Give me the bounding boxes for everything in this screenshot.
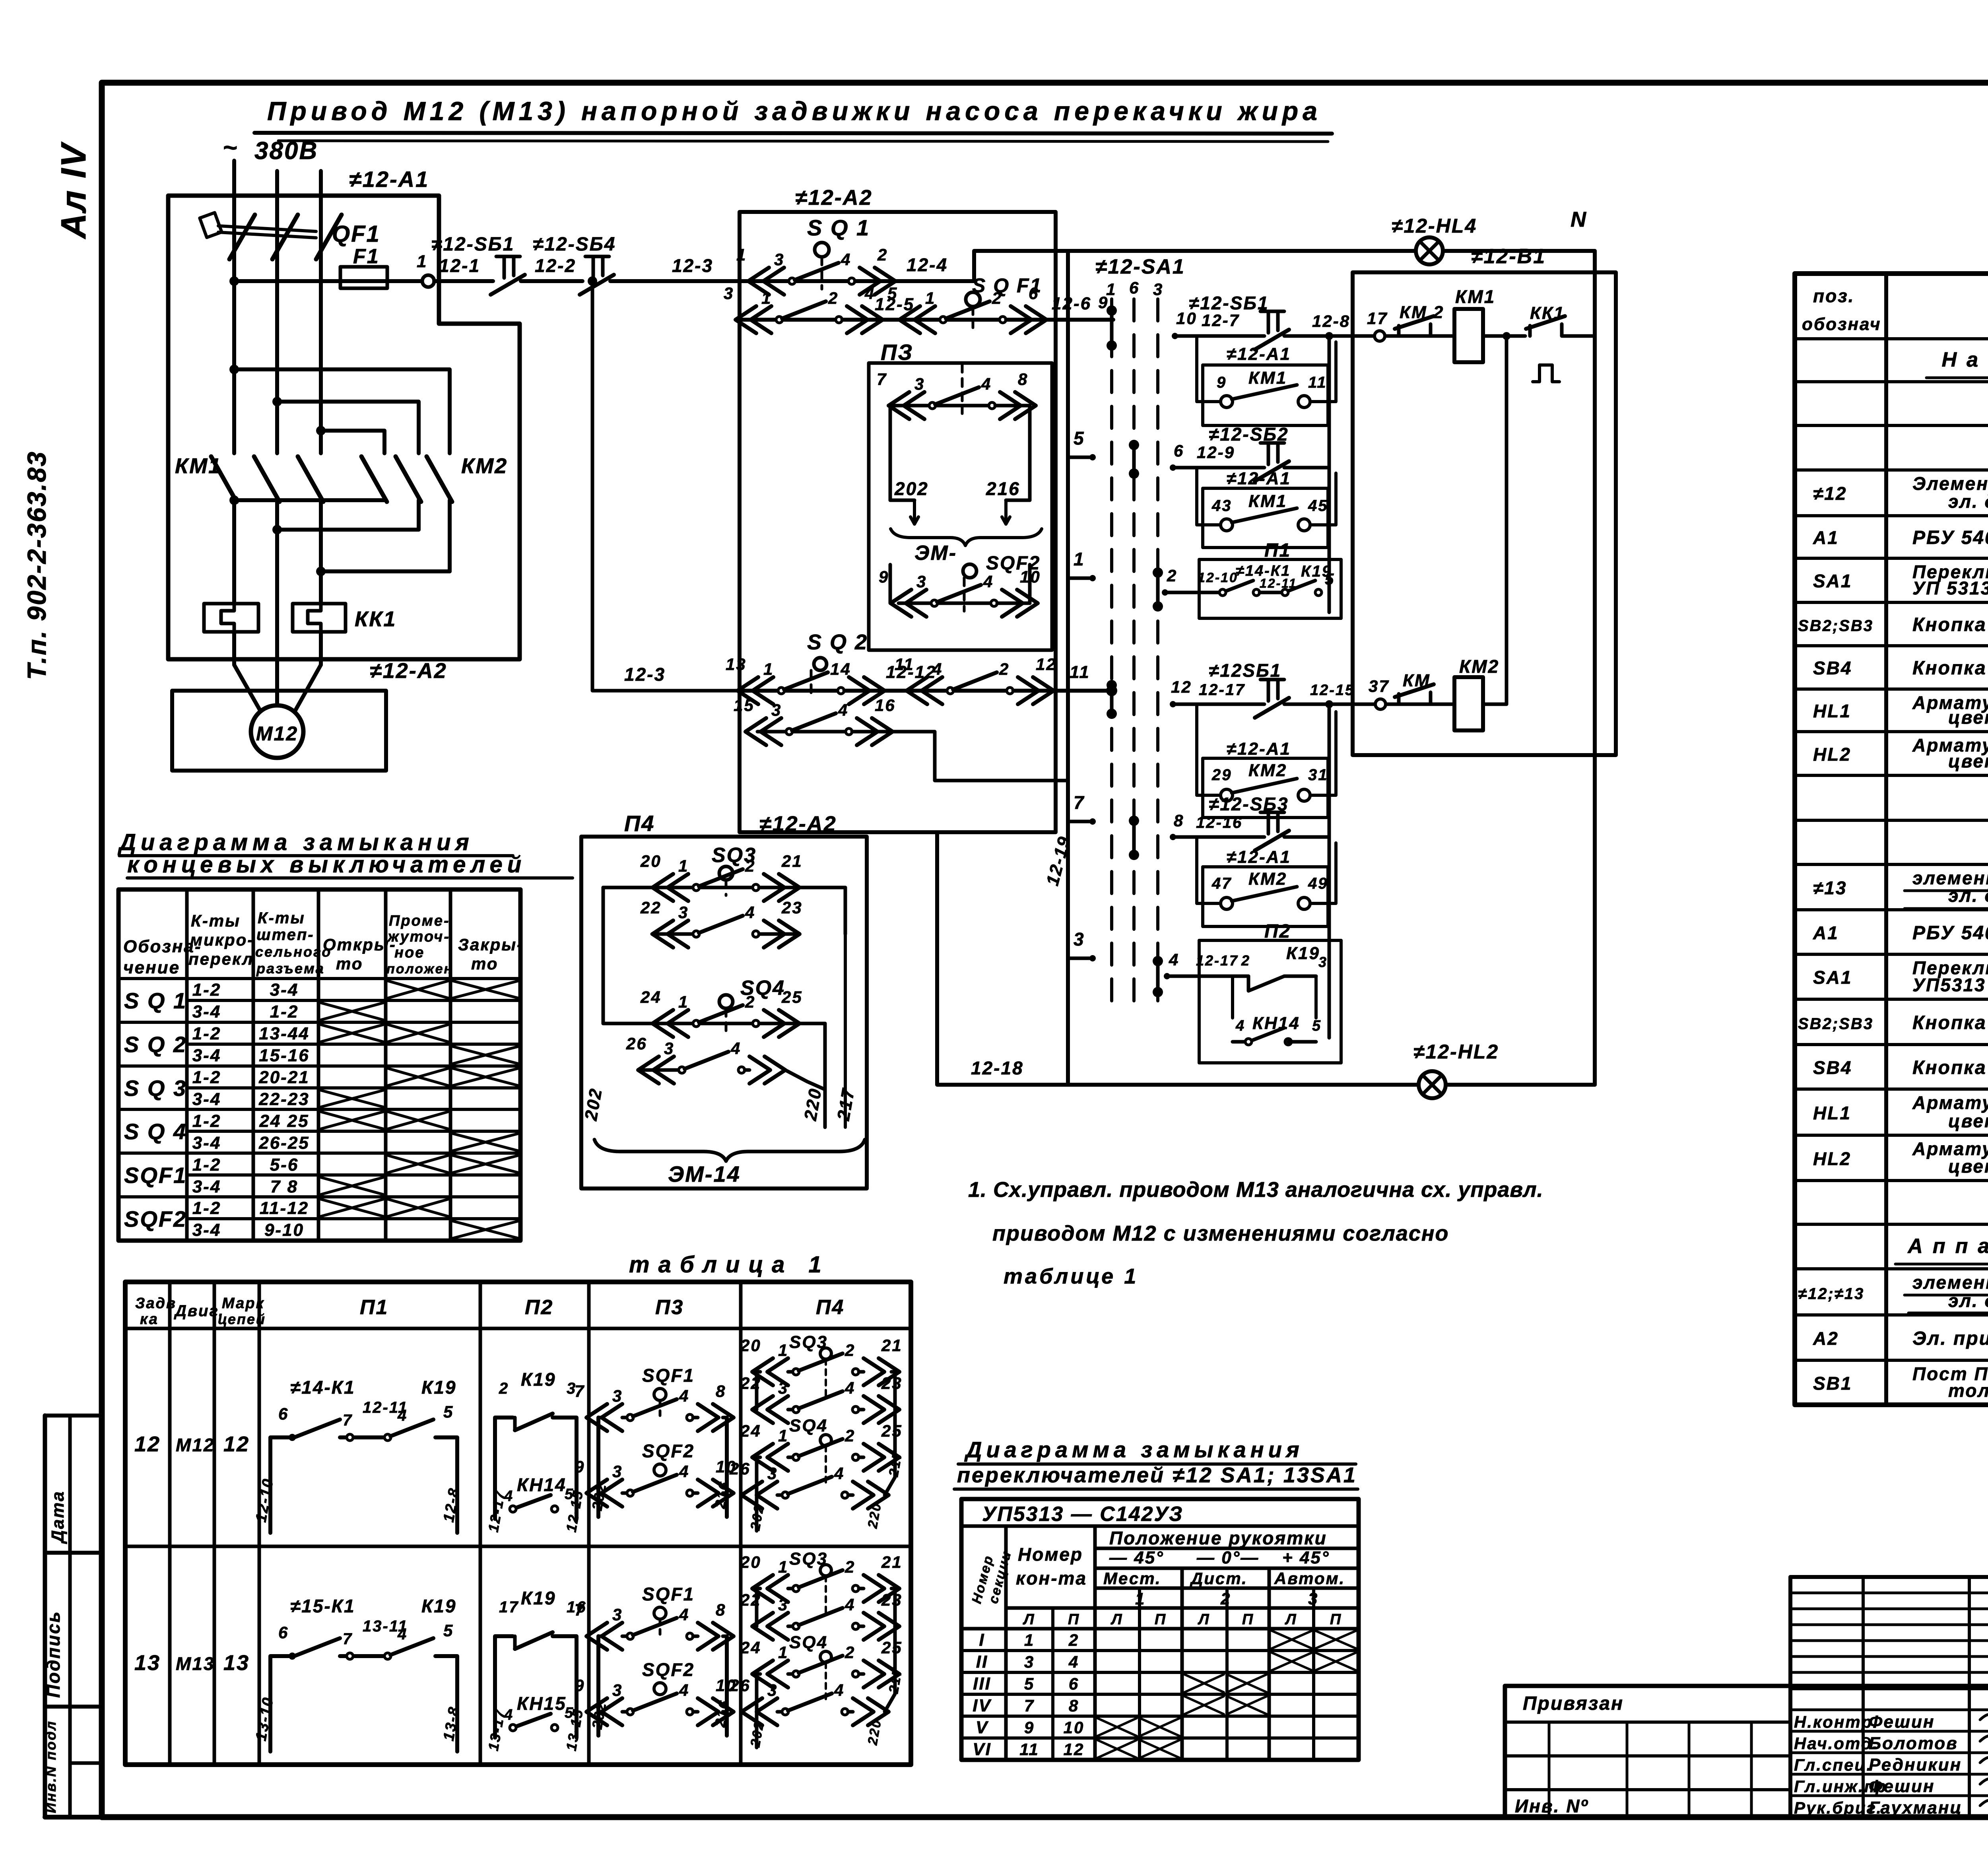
- svg-text:— 45°: — 45°: [1109, 1548, 1164, 1567]
- svg-text:ЭМ-: ЭМ-: [914, 542, 957, 565]
- table1 cell P2 row13: [485, 1588, 587, 1752]
- svg-text:3: 3: [678, 903, 689, 922]
- svg-text:12: 12: [1064, 1740, 1085, 1759]
- svg-text:РБУ 5401- 03А 2Ж: РБУ 5401- 03А 2Ж: [1912, 922, 1988, 944]
- brace EM-14: [594, 1140, 865, 1187]
- svg-text:17: 17: [1367, 309, 1388, 328]
- svg-text:24: 24: [740, 1638, 761, 1657]
- svg-text:2: 2: [1167, 566, 1177, 585]
- svg-text:эл. дв. М13: эл. дв. М13: [1948, 885, 1988, 906]
- signature rows: [1790, 1686, 1988, 1818]
- aux contact box KM2 no.2: [1197, 837, 1336, 926]
- table1 header: [135, 1295, 845, 1328]
- svg-text:3-4: 3-4: [270, 980, 299, 1000]
- svg-text:3-4: 3-4: [192, 1002, 221, 1021]
- left stamp cells: [43, 1416, 111, 1817]
- svg-text:+ 45°: + 45°: [1282, 1548, 1330, 1567]
- svg-text:23: 23: [781, 898, 803, 917]
- svg-text:10: 10: [1020, 567, 1041, 586]
- supply phase wires: [234, 161, 321, 453]
- svg-text:6: 6: [278, 1404, 289, 1423]
- svg-text:концевых выключателей: концевых выключателей: [127, 852, 526, 878]
- svg-text:9: 9: [879, 567, 889, 586]
- svg-text:4: 4: [397, 1407, 408, 1424]
- svg-text:10: 10: [1064, 1718, 1085, 1737]
- svg-text:Кнопка КЕ 011УЗ: Кнопка КЕ 011УЗ: [1912, 614, 1988, 635]
- svg-text:3: 3: [612, 1462, 623, 1481]
- svg-text:12-17: 12-17: [1196, 952, 1239, 969]
- svg-text:П2: П2: [525, 1296, 553, 1319]
- svg-text:НL1: НL1: [1813, 1103, 1851, 1123]
- SA1 table grid: [961, 1499, 1359, 1760]
- svg-text:1-2: 1-2: [192, 1068, 221, 1087]
- svg-text:23: 23: [881, 1374, 903, 1392]
- svg-text:2: 2: [845, 1643, 855, 1662]
- bus stub 5: [1068, 428, 1096, 460]
- svg-text:12-17: 12-17: [1199, 681, 1245, 699]
- svg-text:25: 25: [881, 1638, 903, 1657]
- svg-text:1-2: 1-2: [192, 1024, 221, 1043]
- svg-text:Кнопка КЕ 011УЗ исполн. 2: Кнопка КЕ 011УЗ исполн. 2: [1912, 1012, 1988, 1033]
- svg-text:12: 12: [1171, 678, 1192, 696]
- table1 row labels 13: [134, 1651, 250, 1675]
- svg-text:Положение рукоятки: Положение рукоятки: [1109, 1528, 1327, 1548]
- svg-text:26-25: 26-25: [258, 1133, 310, 1153]
- svg-text:цепей: цепей: [218, 1311, 266, 1327]
- svg-text:4: 4: [1068, 1653, 1079, 1671]
- svg-text:1: 1: [417, 252, 427, 271]
- svg-text:37: 37: [1369, 677, 1390, 695]
- svg-text:КМ2: КМ2: [1248, 761, 1287, 780]
- SA1 diagram title: [954, 1437, 1358, 1489]
- svg-text:21: 21: [781, 852, 803, 870]
- svg-text:7 8: 7 8: [270, 1177, 298, 1196]
- svg-text:1: 1: [1024, 1631, 1035, 1649]
- bus wire 12-19: [1043, 251, 1074, 1085]
- svg-text:поз.: поз.: [1813, 285, 1854, 306]
- svg-text:Дата: Дата: [48, 1490, 68, 1544]
- svg-text:8: 8: [716, 1600, 726, 1619]
- svg-text:А2: А2: [1813, 1328, 1839, 1349]
- motor feeder wires: [234, 632, 321, 711]
- parts table header: [1802, 285, 1988, 334]
- svg-text:Фешин: Фешин: [1869, 1777, 1935, 1796]
- svg-text:цвет красн.: цвет красн.: [1948, 1111, 1988, 1131]
- svg-text:3: 3: [914, 375, 925, 393]
- svg-text:380В: 380В: [254, 137, 318, 165]
- svg-text:12-3: 12-3: [624, 664, 666, 685]
- revision table: [1790, 1577, 1988, 1688]
- svg-text:12-2: 12-2: [535, 255, 576, 276]
- svg-text:11-12: 11-12: [260, 1198, 309, 1218]
- svg-text:1: 1: [1106, 280, 1116, 299]
- svg-text:3: 3: [778, 1379, 788, 1397]
- svg-text:П: П: [1068, 1611, 1080, 1628]
- svg-text:5-6: 5-6: [270, 1155, 299, 1175]
- svg-text:SА1: SА1: [1813, 967, 1852, 988]
- svg-text:К-ты: К-ты: [191, 911, 241, 930]
- svg-text:4: 4: [983, 572, 994, 591]
- svg-text:31: 31: [1308, 766, 1328, 784]
- svg-text:Редникин: Редникин: [1869, 1755, 1962, 1775]
- svg-text:Аппаратура по месту: Аппаратура по месту: [1907, 1235, 1988, 1258]
- svg-text:НL2: НL2: [1813, 1148, 1851, 1169]
- svg-text:5: 5: [1024, 1674, 1035, 1693]
- bus stub 1: [1068, 549, 1096, 581]
- svg-text:≠12-В1: ≠12-В1: [1471, 245, 1546, 268]
- supply 380V label: [223, 134, 318, 165]
- svg-text:Откры-: Откры-: [323, 935, 396, 954]
- svg-text:22: 22: [740, 1374, 761, 1392]
- SA1 contact pair 2: [1132, 445, 1136, 474]
- svg-text:4: 4: [1169, 950, 1179, 969]
- svg-text:4: 4: [834, 1681, 845, 1699]
- svg-text:Закры-: Закры-: [458, 935, 524, 954]
- svg-text:КМ2: КМ2: [1248, 869, 1287, 889]
- svg-text:8: 8: [1174, 811, 1184, 830]
- svg-text:20: 20: [740, 1553, 761, 1571]
- limit switch SQ2 rung: [588, 276, 1112, 704]
- svg-text:Задв: Задв: [135, 1295, 177, 1312]
- svg-text:3: 3: [1074, 929, 1085, 950]
- svg-text:49: 49: [1308, 875, 1328, 892]
- parts row: SB1 post: [1813, 1363, 1988, 1401]
- panel A1 box: [168, 196, 520, 659]
- svg-text:11: 11: [895, 655, 914, 674]
- svg-text:12-4: 12-4: [907, 254, 948, 275]
- parts table grid: [1795, 274, 1988, 1405]
- svg-text:7: 7: [1074, 792, 1085, 813]
- fuse F1: [229, 245, 422, 288]
- svg-text:6: 6: [1129, 278, 1140, 297]
- svg-text:24: 24: [640, 988, 662, 1006]
- svg-text:толк.средн 1з 1р толк нижн 1з: толк.средн 1з 1р толк нижн 1з 1р: [1948, 1380, 1988, 1401]
- interlock box П2: [1164, 921, 1341, 1063]
- svg-text:Привязан: Привязан: [1523, 1693, 1624, 1714]
- table1 cell P3 row12: [575, 1365, 737, 1517]
- svg-text:12-3: 12-3: [672, 255, 713, 276]
- svg-text:ЭМ-14: ЭМ-14: [668, 1161, 741, 1187]
- SQF2 contact in П3: [879, 553, 1041, 617]
- SA1 table header: [969, 1544, 1345, 1628]
- SA1 row II: [976, 1652, 1356, 1672]
- svg-text:7: 7: [877, 370, 887, 388]
- svg-text:≠12-SБ1: ≠12-SБ1: [1189, 293, 1269, 313]
- wire 12-3: [610, 255, 740, 281]
- svg-text:К19: К19: [421, 1596, 456, 1616]
- svg-text:3: 3: [916, 572, 927, 591]
- wire 12-2: [521, 255, 582, 281]
- svg-text:4: 4: [679, 1387, 689, 1405]
- svg-text:элементы управления: элементы управления: [1912, 1272, 1988, 1293]
- svg-text:то: то: [471, 954, 498, 973]
- svg-text:Т.п. 902-2-363.83: Т.п. 902-2-363.83: [22, 451, 51, 680]
- svg-text:2: 2: [1220, 1589, 1231, 1608]
- table1 grid: [125, 1282, 911, 1765]
- svg-text:Насосная станция: Насосная станция: [1942, 348, 1988, 371]
- svg-text:2: 2: [745, 856, 755, 875]
- svg-text:SQF1: SQF1: [642, 1365, 695, 1386]
- svg-text:S Q 3: S Q 3: [124, 1076, 187, 1101]
- svg-text:II: II: [976, 1652, 988, 1672]
- svg-text:9: 9: [1024, 1718, 1035, 1737]
- svg-text:N: N: [1571, 208, 1587, 231]
- parts row: SA1 switch: [1813, 561, 1988, 598]
- svg-text:12: 12: [134, 1432, 161, 1456]
- svg-text:3: 3: [767, 1464, 778, 1483]
- svg-text:НL1: НL1: [1813, 701, 1851, 721]
- svg-text:6: 6: [1069, 1674, 1079, 1693]
- svg-text:Дист.: Дист.: [1190, 1569, 1248, 1588]
- svg-text:5: 5: [1312, 1018, 1322, 1034]
- svg-text:≠12-SБ1: ≠12-SБ1: [431, 234, 514, 255]
- limit switch table header: [123, 909, 524, 977]
- svg-text:2: 2: [999, 660, 1010, 678]
- svg-text:2: 2: [745, 992, 755, 1011]
- limit switch SQ4 contacts: [581, 934, 858, 1127]
- bus stub 7: [1068, 792, 1096, 825]
- svg-text:5: 5: [887, 284, 898, 303]
- svg-text:QF1: QF1: [332, 221, 381, 247]
- table group SQ4: [124, 1111, 518, 1153]
- parts row: A1 RBU 2: [1813, 922, 1988, 944]
- svg-text:КМ2: КМ2: [1459, 656, 1499, 677]
- parts row: SB4 2: [1813, 1057, 1988, 1078]
- svg-text:разъема: разъема: [256, 960, 325, 977]
- parts row: HL1 2: [1813, 1092, 1988, 1131]
- svg-text:Мест.: Мест.: [1103, 1569, 1161, 1588]
- parts row: Nasosnaya stanciya: [1926, 348, 1988, 378]
- contactor KM2 main contacts: [361, 454, 508, 571]
- svg-text:Н.контр.: Н.контр.: [1794, 1713, 1879, 1731]
- svg-text:7: 7: [343, 1630, 353, 1648]
- svg-text:К19: К19: [521, 1369, 556, 1390]
- svg-text:1: 1: [763, 660, 774, 678]
- svg-text:КМ1: КМ1: [1248, 491, 1287, 511]
- svg-text:6: 6: [278, 1623, 289, 1642]
- svg-text:6: 6: [1029, 284, 1039, 303]
- svg-text:1-2: 1-2: [192, 1198, 221, 1218]
- svg-text:1: 1: [1074, 549, 1085, 569]
- svg-text:приводом М12 с изменениями: приводом М12 с изменениями согласно: [992, 1221, 1449, 1245]
- svg-text:24: 24: [740, 1422, 761, 1440]
- svg-text:1-2: 1-2: [270, 1002, 299, 1021]
- thermal relay KK1: [204, 604, 396, 632]
- svg-text:Проме-: Проме-: [389, 913, 450, 929]
- svg-text:15-16: 15-16: [259, 1046, 310, 1065]
- svg-text:21: 21: [881, 1553, 903, 1571]
- svg-text:3: 3: [612, 1681, 623, 1699]
- svg-text:4: 4: [841, 250, 851, 269]
- svg-text:11: 11: [1019, 1740, 1039, 1759]
- svg-text:НL2: НL2: [1813, 744, 1851, 765]
- table group SQF1: [124, 1155, 518, 1196]
- svg-text:4: 4: [845, 1595, 855, 1614]
- svg-text:12-18: 12-18: [971, 1058, 1024, 1078]
- svg-text:13: 13: [223, 1651, 250, 1675]
- svg-text:12-8: 12-8: [1312, 312, 1350, 330]
- svg-text:26: 26: [729, 1676, 751, 1695]
- parts row: SB4: [1813, 658, 1988, 679]
- svg-text:25: 25: [781, 988, 803, 1006]
- svg-text:Л: Л: [1197, 1611, 1210, 1628]
- valve drive box #12-A2 control: [740, 186, 1056, 832]
- SA1 contact pair 3: [1156, 573, 1160, 606]
- SA1 contact pair 1: [1110, 311, 1114, 346]
- table group SQF2: [124, 1198, 518, 1240]
- svg-text:I: I: [979, 1630, 985, 1650]
- svg-text:7: 7: [575, 1382, 585, 1400]
- svg-text:9: 9: [575, 1457, 585, 1476]
- svg-text:17: 17: [499, 1598, 519, 1616]
- svg-text:Болотов: Болотов: [1869, 1734, 1958, 1753]
- svg-text:Л: Л: [1022, 1611, 1035, 1628]
- svg-text:S Q 2: S Q 2: [124, 1032, 187, 1057]
- svg-text:3: 3: [778, 1595, 788, 1614]
- table1 cell P1 row12: [253, 1377, 463, 1533]
- svg-text:4: 4: [981, 375, 992, 393]
- svg-text:К19: К19: [1286, 944, 1320, 963]
- svg-text:1: 1: [678, 856, 689, 875]
- svg-text:Автом.: Автом.: [1274, 1569, 1345, 1588]
- svg-text:2: 2: [845, 1426, 855, 1445]
- limit switch SQ3 contacts: [603, 844, 845, 1023]
- svg-text:7: 7: [343, 1412, 353, 1429]
- aux contact box KM2 no.1: [1197, 704, 1336, 818]
- svg-text:SВ2;SВ3: SВ2;SВ3: [1798, 617, 1873, 635]
- svg-text:Арматура ЛС-53 V 220В: Арматура ЛС-53 V 220В: [1912, 1092, 1988, 1113]
- svg-text:12: 12: [1036, 655, 1057, 674]
- svg-text:2: 2: [992, 289, 1002, 307]
- svg-text:43: 43: [1211, 497, 1232, 515]
- svg-text:5: 5: [443, 1621, 454, 1640]
- svg-text:обознач: обознач: [1802, 315, 1881, 334]
- svg-text:21: 21: [881, 1336, 903, 1355]
- svg-text:1: 1: [778, 1557, 788, 1576]
- svg-text:IV: IV: [973, 1696, 992, 1715]
- table group SQ3: [124, 1068, 518, 1109]
- svg-text:12: 12: [223, 1432, 250, 1456]
- svg-text:26: 26: [729, 1459, 751, 1478]
- svg-text:2: 2: [845, 1341, 855, 1359]
- svg-text:14: 14: [830, 660, 851, 678]
- svg-text:4: 4: [845, 1379, 855, 1397]
- parts row: A2 drive: [1813, 1328, 1988, 1349]
- svg-text:9: 9: [575, 1676, 585, 1695]
- SQ2 second contact rung: [734, 696, 1068, 781]
- bus stub 3: [1068, 929, 1096, 961]
- table1 cell P1 row13: [253, 1596, 463, 1752]
- lamp #12-HL2 and wire 12-18: [937, 832, 1595, 1098]
- SA1 row IV: [973, 1696, 1267, 1715]
- svg-text:2: 2: [1068, 1631, 1079, 1649]
- svg-text:20: 20: [640, 852, 662, 870]
- svg-text:РБУ 5401 - 03А2Ж: РБУ 5401 - 03А2Ж: [1912, 527, 1988, 548]
- svg-text:SВ4: SВ4: [1813, 1057, 1852, 1078]
- contactor KM1 main contacts: [175, 454, 323, 571]
- table1 cell P4 row12: [729, 1332, 905, 1532]
- svg-text:202: 202: [894, 478, 929, 499]
- svg-text:SВ1: SВ1: [1813, 1373, 1852, 1394]
- svg-text:4: 4: [864, 284, 875, 303]
- svg-text:Л: Л: [1284, 1611, 1297, 1628]
- EM solenoid stubs 202/216: [890, 478, 1042, 565]
- svg-text:3-4: 3-4: [192, 1133, 221, 1153]
- svg-text:SQ4: SQ4: [789, 1633, 828, 1652]
- svg-text:13-44: 13-44: [259, 1024, 310, 1043]
- rung4: start rev: [1170, 660, 1454, 718]
- svg-text:КК1: КК1: [355, 607, 396, 631]
- svg-text:КМ1: КМ1: [1248, 368, 1287, 388]
- svg-text:≠12-А1: ≠12-А1: [1227, 739, 1291, 759]
- svg-text:S Q 1: S Q 1: [807, 215, 870, 240]
- node 1: [417, 252, 434, 287]
- rung6: SB3: [1170, 700, 1333, 1038]
- aux contact box KM1 no.2: [1197, 468, 1336, 548]
- svg-text:29: 29: [1211, 766, 1232, 784]
- svg-text:3: 3: [612, 1387, 623, 1405]
- svg-text:SА1: SА1: [1813, 571, 1852, 591]
- limit switch SQF1 rung: [724, 274, 1113, 333]
- KM2 feed loops: [229, 365, 450, 453]
- svg-text:Фешин: Фешин: [1869, 1712, 1935, 1732]
- svg-text:S Q 1: S Q 1: [124, 988, 187, 1013]
- limit switch diagram title: [117, 829, 573, 878]
- svg-text:11: 11: [1070, 662, 1090, 682]
- svg-text:4: 4: [745, 903, 755, 922]
- svg-text:12-7: 12-7: [1202, 311, 1240, 330]
- svg-text:12-10: 12-10: [1198, 570, 1238, 585]
- svg-text:М12: М12: [176, 1435, 215, 1455]
- table1 cell P4 row13: [729, 1549, 905, 1748]
- svg-text:3-4: 3-4: [192, 1177, 221, 1196]
- parts row: SA1 switch 2: [1813, 957, 1988, 995]
- svg-text:4: 4: [730, 1039, 741, 1058]
- svg-text:≠15-К1: ≠15-К1: [290, 1596, 355, 1616]
- svg-text:~: ~: [223, 134, 238, 161]
- П3 box: [869, 340, 1052, 650]
- svg-text:≠12-НL2: ≠12-НL2: [1413, 1041, 1499, 1063]
- parts row: HL2 2: [1813, 1138, 1988, 1177]
- svg-text:22-23: 22-23: [258, 1089, 310, 1109]
- SA1 row I: [979, 1630, 1356, 1650]
- svg-text:3-4: 3-4: [192, 1089, 221, 1109]
- svg-text:9-10: 9-10: [264, 1220, 304, 1240]
- svg-text:22: 22: [740, 1590, 761, 1609]
- svg-text:VI: VI: [973, 1740, 992, 1759]
- svg-text:III: III: [973, 1674, 991, 1693]
- svg-text:5: 5: [443, 1402, 454, 1421]
- svg-text:К19: К19: [521, 1588, 556, 1608]
- contactor coil KM1: [1454, 286, 1525, 362]
- svg-text:≠12-А2: ≠12-А2: [795, 186, 873, 210]
- parts row: Apparatura po mestu: [1895, 1235, 1988, 1264]
- limit switch table grid: [118, 889, 520, 1241]
- svg-text:≠14-К1: ≠14-К1: [290, 1377, 355, 1398]
- parts row: #12 #13 elements: [1798, 1272, 1988, 1311]
- svg-text:≠12-А2: ≠12-А2: [370, 659, 447, 683]
- SA1 contact pair 5: [1132, 821, 1136, 855]
- svg-text:кон-та: кон-та: [1016, 1568, 1087, 1589]
- svg-text:11: 11: [1308, 374, 1327, 391]
- svg-text:П: П: [1155, 1611, 1167, 1628]
- svg-text:≠12-А1: ≠12-А1: [1227, 344, 1291, 364]
- svg-text:П4: П4: [624, 811, 655, 836]
- thermal NC KK1 with reset: [1526, 303, 1595, 382]
- svg-text:то: то: [336, 954, 363, 973]
- parts row: HL2: [1813, 735, 1988, 771]
- pushbutton #12-SB4: [533, 234, 616, 295]
